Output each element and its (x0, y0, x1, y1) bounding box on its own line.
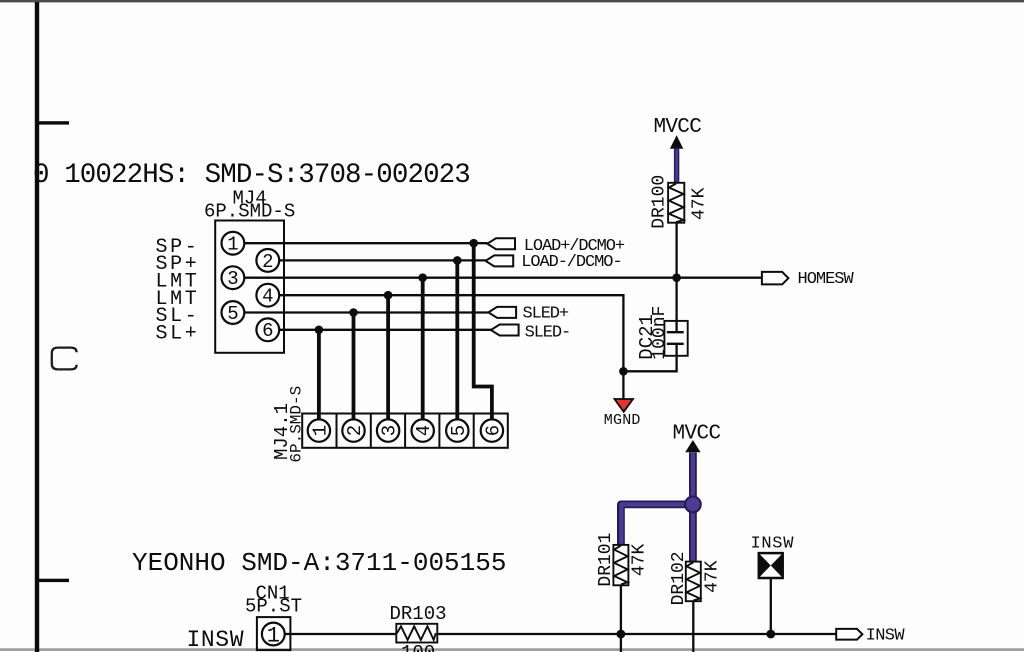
svg-text:2: 2 (344, 425, 366, 436)
MJ4.1 pin 3 (377, 419, 401, 441)
wire DR100 to node (675, 223, 677, 333)
junction row3/pin4 (418, 273, 427, 282)
junction row1/pin6 (469, 239, 478, 248)
MJ4.1 pin 6 (481, 419, 505, 441)
svg-text:DR102: DR102 (669, 551, 689, 605)
CN1 pin 1 (262, 623, 285, 649)
svg-text:MVCC: MVCC (654, 116, 702, 139)
svg-text:47K: 47K (703, 560, 723, 593)
svg-text:HOMESW: HOMESW (798, 270, 855, 289)
svg-text:YEONHO SMD-A:3711-005155: YEONHO SMD-A:3711-005155 (132, 548, 506, 578)
svg-text:1: 1 (227, 234, 238, 256)
resistor DR103 (390, 603, 447, 652)
wire row4 LMT elbow to MGND node (279, 295, 623, 371)
tag LOAD+/DCMO+ (487, 237, 625, 256)
MJ4 pin 1 (222, 232, 245, 256)
connector MJ4.1 label (271, 386, 306, 463)
svg-text:2: 2 (262, 251, 273, 273)
MJ4.1 pin 2 (342, 419, 366, 441)
wire DR102 through bus (692, 601, 694, 652)
zone label C (52, 348, 77, 370)
tag INSW (836, 626, 905, 645)
power MVCC (top) (654, 116, 702, 149)
svg-text:INSW: INSW (187, 627, 245, 652)
drop wire row5 to MJ4.1 pin2 (352, 313, 356, 421)
tag SLED+ (488, 305, 569, 324)
tag LOAD-/DCMO- (486, 253, 622, 272)
svg-text:47K: 47K (690, 187, 710, 220)
junction row2/pin5 (453, 256, 462, 265)
wire row6 SL+ to SLED- tag (279, 329, 491, 331)
svg-text:INSW: INSW (751, 535, 795, 554)
svg-text:MVCC: MVCC (673, 422, 721, 445)
drop wire row4 to MJ4.1 pin3 (386, 295, 390, 420)
svg-text:DR100: DR100 (650, 175, 670, 229)
drop wire row2 to MJ4.1 pin5 (455, 260, 459, 420)
ground MGND (604, 399, 641, 429)
drop wire row6 to MJ4.1 pin1 (317, 330, 321, 420)
svg-text:DR103: DR103 (390, 603, 447, 625)
resistor DR102 (669, 551, 723, 605)
wire node to MGND (622, 371, 624, 399)
MJ4 pin 6 (256, 318, 279, 342)
wire row1 SP- to LOAD+ tag (244, 242, 488, 244)
svg-text:100: 100 (401, 642, 435, 652)
connector MJ4.1 body (302, 414, 508, 448)
connector MJ4 label (204, 187, 295, 222)
resistor DR101 (596, 533, 649, 587)
MJ4.1 pin 5 (446, 419, 470, 441)
wire bus DR103 to INSW tag (437, 633, 837, 635)
wire DR101 to bus (620, 585, 622, 652)
junction HOMESW node (672, 273, 681, 282)
wire row2 SP+ to LOAD- tag (279, 259, 486, 261)
resistor DR100 (650, 175, 710, 229)
photointerrupter INSW (751, 535, 795, 578)
power MVCC (lower) (673, 422, 721, 452)
svg-text:6P.SMD-S: 6P.SMD-S (204, 201, 295, 223)
svg-text:3: 3 (379, 425, 401, 436)
svg-text:100nF: 100nF (650, 306, 670, 360)
svg-text:1: 1 (267, 624, 280, 649)
svg-text:DR101: DR101 (596, 533, 616, 587)
svg-text:4: 4 (413, 425, 435, 436)
wire INSW to bus (770, 578, 772, 634)
junction row4/pin3 (384, 291, 393, 300)
svg-text:LOAD-/DCMO-: LOAD-/DCMO- (521, 253, 621, 272)
wire row5 SL- to SLED+ tag (244, 311, 489, 313)
svg-text:INSW: INSW (866, 626, 906, 645)
svg-text:SLED-: SLED- (525, 323, 571, 342)
wire DC21 to MGND node (623, 344, 676, 372)
wire row3 LMT to HOMESW (244, 277, 763, 279)
MJ4.1 pin 4 (412, 419, 436, 441)
capacitor DC21 (636, 306, 688, 360)
junction bus INSW (766, 630, 775, 639)
MJ4 pin 3 (222, 266, 245, 290)
wire CN1 to DR103 (285, 633, 397, 635)
MJ4.1 pin 1 (308, 419, 332, 441)
drop wire row1 to MJ4.1 pin6 (474, 243, 492, 420)
svg-text:MGND: MGND (604, 412, 641, 429)
svg-text:5: 5 (448, 425, 470, 436)
svg-text:SLED+: SLED+ (523, 305, 569, 324)
svg-text:5: 5 (227, 303, 238, 325)
tag HOMESW (762, 270, 855, 289)
junction row6/pin1 (315, 326, 324, 335)
junction MGND node (619, 367, 628, 376)
svg-text:3: 3 (227, 268, 238, 290)
tag SLED- (491, 323, 570, 342)
svg-text:6: 6 (482, 425, 504, 436)
junction bus DR101 (617, 630, 626, 639)
connector MJ4 body (215, 221, 284, 353)
power wire MVCC purple (674, 150, 679, 182)
svg-text:4: 4 (262, 286, 273, 308)
connector CN1 body (257, 617, 291, 650)
junction purple MVCC node (685, 497, 701, 513)
svg-text:6: 6 (262, 320, 273, 342)
MJ4 pin 4 (256, 284, 279, 308)
connector CN1 label (245, 583, 302, 618)
svg-text:5P.ST: 5P.ST (245, 595, 302, 617)
junction row5/pin2 (349, 308, 358, 317)
svg-text:1: 1 (309, 425, 331, 436)
drop wire row3 to MJ4.1 pin4 (421, 278, 425, 420)
MJ4 pin 5 (222, 301, 245, 325)
svg-text:SL+: SL+ (156, 323, 200, 346)
power wire MVCC lower purple (621, 453, 693, 562)
MJ4 pin 2 (256, 249, 279, 273)
svg-text:47K: 47K (630, 543, 650, 576)
